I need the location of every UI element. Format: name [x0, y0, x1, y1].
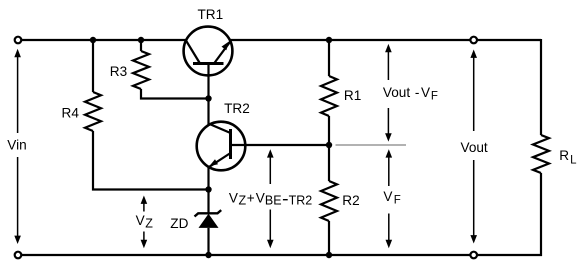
svg-text:V: V [256, 190, 265, 205]
svg-text:-: - [415, 85, 420, 100]
resistor RL [533, 135, 577, 173]
node R1-R2 junction [326, 142, 332, 148]
svg-text:F: F [394, 194, 401, 206]
wire bottom rail [22, 254, 542, 256]
svg-text:R: R [559, 148, 569, 163]
svg-text:L: L [570, 154, 577, 166]
wire right side bottom [540, 173, 542, 256]
svg-text:V: V [229, 190, 238, 205]
resistor R2 [321, 145, 360, 255]
VZ+VBE_TR2 measurement arrow [229, 149, 312, 248]
node zener bottom [205, 252, 211, 258]
svg-text:F: F [431, 90, 438, 102]
svg-text:R2: R2 [342, 193, 359, 208]
svg-text:R4: R4 [62, 106, 80, 121]
Vin measurement arrow [7, 49, 26, 244]
svg-text:TR2: TR2 [289, 194, 313, 208]
Vout-VF measurement arrow [383, 44, 438, 142]
wire top rail right (TR1 emitter to output corner) [231, 39, 542, 41]
svg-text:+: + [247, 190, 255, 205]
svg-text:V: V [383, 189, 392, 204]
wire right side down (output rail to RL) [540, 39, 542, 135]
svg-text:Vout: Vout [461, 140, 488, 155]
node zener top junction [205, 186, 211, 192]
node R1 top [326, 37, 332, 43]
wire top rail left (input to TR1 collector) [22, 39, 186, 41]
wire TR2 base to R1-R2 junction [231, 144, 330, 146]
terminal input bottom-left [15, 252, 22, 259]
svg-text:R3: R3 [110, 64, 127, 79]
node R3 top [138, 37, 144, 43]
transistor TR1 [184, 7, 233, 75]
node R2 bottom [326, 252, 332, 258]
resistor R3 [110, 40, 149, 89]
svg-text:TR2: TR2 [224, 101, 250, 116]
svg-text:Z: Z [145, 216, 153, 230]
svg-text:V: V [136, 213, 145, 228]
svg-text:Vout: Vout [383, 85, 410, 100]
node R3 bottom junction [205, 95, 211, 101]
Vout measurement arrow [461, 50, 488, 244]
wire R4 bottom to zener top node [93, 131, 209, 190]
svg-text:ZD: ZD [170, 216, 188, 231]
svg-text:V: V [421, 85, 430, 100]
svg-text:Z: Z [239, 194, 247, 208]
svg-text:BE: BE [265, 194, 282, 208]
svg-text:R1: R1 [344, 88, 361, 103]
svg-text:TR1: TR1 [198, 7, 224, 22]
divider reference line (gray) [336, 144, 407, 146]
transistor TR2 [197, 101, 250, 170]
wire TR2 emitter down [207, 167, 209, 190]
node R4 top [90, 37, 96, 43]
VZ measurement arrow [136, 196, 154, 249]
VF measurement arrow [383, 149, 400, 248]
zener diode ZD [170, 190, 221, 256]
terminal input top-left [15, 37, 22, 44]
wire R3 bottom to TR1 base node [141, 89, 209, 99]
terminal output top-right [470, 37, 477, 44]
resistor R1 [321, 40, 361, 145]
svg-text:Vin: Vin [7, 138, 26, 153]
terminal output bottom-right [470, 252, 477, 259]
resistor R4 [62, 40, 102, 131]
wire TR1 base down to TR2 collector [207, 64, 209, 125]
